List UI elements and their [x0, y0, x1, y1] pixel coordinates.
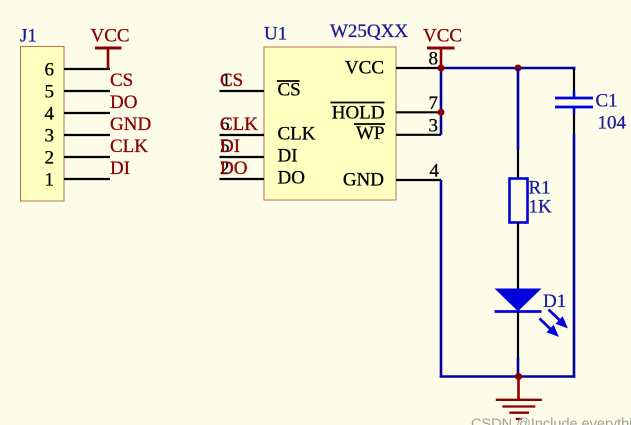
svg-text:7: 7: [429, 93, 439, 114]
svg-text:D1: D1: [543, 291, 566, 312]
svg-text:DO: DO: [278, 168, 305, 189]
svg-text:GND: GND: [110, 114, 151, 135]
svg-text:R1: R1: [529, 178, 551, 199]
wire J1 pin5 CS: [64, 90, 110, 92]
svg-text:CS: CS: [220, 70, 243, 91]
svg-text:DI: DI: [278, 146, 298, 167]
junction node VCC pin8: [438, 65, 445, 72]
svg-text:VCC: VCC: [423, 26, 462, 47]
wire D1 to bottom rail (blue): [517, 357, 520, 378]
svg-text:VCC: VCC: [91, 26, 130, 47]
resistor R1 top pin: [517, 150, 519, 179]
ground symbol: [496, 377, 542, 420]
wire VCC rail horizontal: [441, 67, 575, 70]
svg-text:4: 4: [430, 161, 440, 182]
LED D1 emission arrow upper: [549, 310, 568, 328]
wire U1 DI stub: [220, 156, 265, 158]
wire J1 pin3 GND: [64, 134, 110, 136]
svg-text:5: 5: [45, 82, 55, 103]
svg-text:CLK: CLK: [220, 114, 258, 135]
svg-text:DO: DO: [220, 158, 247, 179]
wire U1 VCC stub pin8: [396, 67, 441, 69]
svg-text:GND: GND: [343, 170, 384, 191]
LED D1 triangle: [495, 289, 542, 312]
wire U1 CS stub: [220, 90, 265, 92]
svg-text:1K: 1K: [529, 197, 553, 218]
svg-text:J1: J1: [20, 26, 37, 47]
svg-text:U1: U1: [264, 24, 287, 45]
junction node bottom rail: [515, 373, 522, 380]
wire HOLD/WP tie vertical: [440, 68, 443, 135]
wire U1 HOLD stub pin7: [396, 111, 441, 113]
resistor R1 body: [510, 179, 528, 223]
LED D1 cathode bar: [495, 310, 542, 313]
svg-text:104: 104: [598, 113, 627, 134]
svg-text:C1: C1: [596, 91, 618, 112]
svg-text:CSDN @Include everything: CSDN @Include everything: [471, 417, 631, 425]
wire J1 pin1 DI: [64, 178, 110, 180]
capacitor C1 bottom lead stub: [573, 107, 576, 114]
svg-text:3: 3: [429, 115, 439, 136]
wire GND branch vertical: [440, 180, 443, 378]
svg-text:CS: CS: [110, 70, 133, 91]
svg-text:2: 2: [45, 148, 55, 169]
wire J1 pin2 CLK: [64, 156, 110, 158]
svg-text:4: 4: [45, 104, 55, 125]
junction node pin7 tie: [438, 109, 445, 116]
svg-text:6: 6: [45, 60, 55, 81]
svg-text:DI: DI: [220, 136, 240, 157]
capacitor C1 bottom plate: [555, 106, 593, 109]
connector J1 body: [21, 47, 65, 202]
capacitor C1 bottom pin: [573, 114, 575, 135]
capacitor C1 top pin: [573, 69, 575, 91]
wire U1 GND stub pin4: [396, 179, 441, 181]
power symbol VCC (right): [427, 48, 455, 68]
wire J1 pin6 to VCC: [64, 68, 110, 70]
wire U1 CLK stub: [220, 134, 265, 136]
wire bottom rail horizontal: [440, 375, 576, 378]
svg-text:CLK: CLK: [278, 124, 316, 145]
power symbol VCC (left): [95, 48, 122, 69]
wire VCC rail corner to C1: [573, 67, 576, 70]
wire VCC rail to R1 (blue): [517, 68, 520, 150]
LED D1 cathode pin: [517, 312, 519, 358]
svg-text:CS: CS: [278, 80, 301, 101]
svg-text:DO: DO: [110, 92, 137, 113]
svg-text:3: 3: [45, 126, 55, 147]
svg-text:HOLD: HOLD: [332, 102, 385, 123]
wire R1 bottom pin to D1 anode pin: [517, 223, 519, 290]
svg-text:WP: WP: [356, 123, 385, 144]
wire U1 WP stub pin3: [396, 134, 441, 136]
wire U1 DO stub: [220, 178, 265, 180]
svg-text:W25QXX: W25QXX: [330, 21, 408, 42]
svg-text:VCC: VCC: [345, 57, 384, 78]
svg-text:CLK: CLK: [110, 136, 148, 157]
svg-text:DI: DI: [110, 158, 130, 179]
svg-text:1: 1: [45, 170, 55, 191]
wire C1 to bottom rail (blue): [573, 134, 576, 378]
IC U1 body: [264, 47, 396, 200]
capacitor C1 top lead stub: [573, 91, 576, 98]
wire J1 pin4 DO: [64, 112, 110, 114]
LED D1 emission arrow lower: [540, 319, 559, 337]
capacitor C1 top plate: [555, 97, 593, 100]
junction node VCC/R1: [515, 65, 522, 72]
svg-text:8: 8: [429, 49, 439, 70]
